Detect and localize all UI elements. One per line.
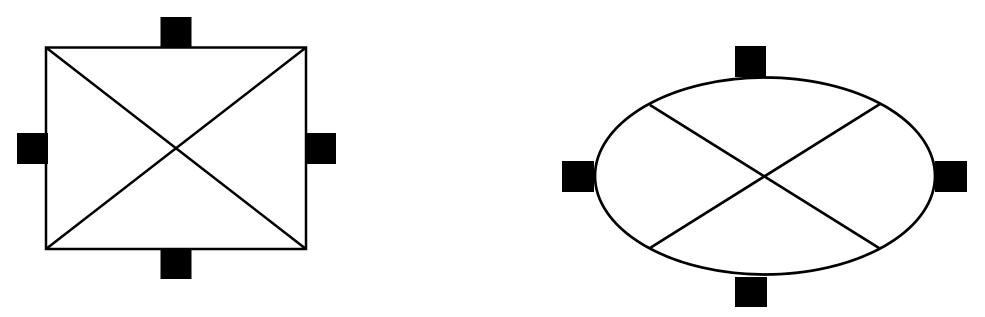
- ellipse with crossed chords: [595, 78, 935, 275]
- handle left (ellipse): [562, 161, 594, 192]
- rectangle with diagonals: [46, 48, 306, 250]
- handle bottom (ellipse): [735, 277, 767, 307]
- handle right (rectangle): [305, 133, 336, 164]
- chord upper-left to lower-right: [650, 105, 879, 248]
- handle top (rectangle): [161, 17, 192, 48]
- handle right (ellipse): [935, 161, 967, 192]
- diagonal TL-BR: [46, 48, 306, 250]
- chord lower-left to upper-right: [650, 104, 880, 248]
- handle left (rectangle): [17, 133, 48, 164]
- diagonal TR-BL: [46, 48, 306, 250]
- handle bottom (rectangle): [161, 248, 192, 279]
- handle top (ellipse): [735, 46, 766, 77]
